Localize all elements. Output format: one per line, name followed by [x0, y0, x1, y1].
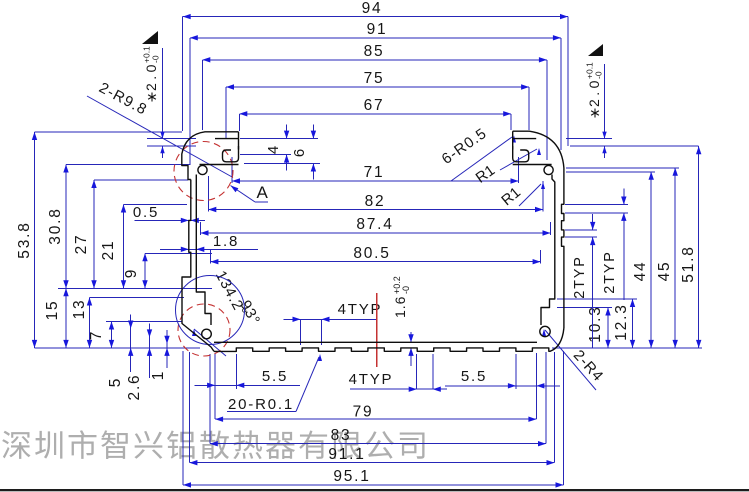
dim 1 left	[150, 330, 170, 380]
profile left boss curl	[200, 164, 239, 166]
dim 27 left	[73, 180, 188, 288]
dim 87.4 width	[201, 216, 551, 236]
label A leader	[231, 183, 270, 202]
dim 83 bottom	[210, 352, 546, 446]
section mark left *2.0	[142, 31, 165, 158]
svg-text:5: 5	[107, 377, 124, 387]
svg-text:53.8: 53.8	[16, 221, 33, 258]
svg-text:83: 83	[331, 427, 352, 444]
dim 5.5 bottom right	[445, 354, 560, 389]
svg-text:4TYP: 4TYP	[338, 301, 383, 318]
svg-text:0.5: 0.5	[133, 204, 159, 221]
dim 13 left	[71, 298, 184, 348]
dim 0.5 wall step	[133, 204, 205, 223]
svg-text:95.1: 95.1	[333, 468, 370, 485]
svg-text:45: 45	[656, 261, 673, 282]
watermark chinese text	[2, 430, 424, 459]
svg-text:91: 91	[367, 21, 388, 38]
label 2-R4 leader	[542, 329, 607, 390]
svg-text:-0: -0	[594, 71, 604, 79]
svg-text:67: 67	[364, 97, 385, 114]
dim 5 left	[107, 315, 133, 388]
red centerline	[376, 293, 378, 367]
label 6-R0.5 leader	[439, 125, 516, 181]
svg-text:2TYP: 2TYP	[572, 255, 588, 298]
svg-text:44: 44	[632, 261, 649, 282]
dim 4TYP floor rib	[284, 301, 383, 345]
profile left lid hook	[215, 132, 239, 150]
dim 71 inner width	[232, 157, 519, 184]
svg-text:1.8: 1.8	[213, 233, 239, 250]
dim 95.1 bottom	[183, 351, 564, 488]
dim 53.8 left height	[16, 132, 200, 348]
svg-text:13: 13	[71, 299, 88, 320]
svg-text:5.5: 5.5	[461, 368, 487, 385]
svg-text:94: 94	[362, 0, 383, 17]
profile right boss curl	[513, 164, 552, 166]
profile right lid hook	[513, 131, 537, 149]
dim 51.8 right height	[552, 146, 702, 348]
svg-text:79: 79	[353, 404, 374, 421]
profile right bottom boss	[540, 326, 550, 336]
svg-text:91.1: 91.1	[328, 446, 365, 463]
svg-text:30.8: 30.8	[47, 207, 64, 244]
ext lines 4/6	[240, 139, 320, 164]
label 2-R9.8 with leader	[87, 79, 233, 177]
svg-text:4: 4	[265, 144, 282, 154]
svg-text:27: 27	[73, 234, 90, 255]
svg-text:A: A	[256, 183, 269, 202]
svg-text:15: 15	[44, 300, 61, 321]
profile left wall	[182, 180, 214, 352]
label R1 upper	[473, 148, 541, 187]
profile interior floor	[214, 341, 537, 343]
svg-text:2TYP: 2TYP	[602, 250, 618, 293]
profile right inner wall	[541, 175, 555, 326]
red detail circle bottom-left	[178, 304, 230, 356]
svg-text:1: 1	[150, 370, 167, 380]
ext line right lid slot	[566, 138, 612, 140]
profile bottom serrated edge	[214, 328, 564, 351]
svg-text:1.6: 1.6	[392, 296, 408, 318]
dim 67 top width	[239, 97, 511, 131]
dim 30.8 left	[47, 165, 190, 289]
label 20-R0.1	[227, 354, 322, 413]
profile right wall outer	[513, 131, 564, 328]
dim 5.5 bottom left	[195, 354, 301, 389]
svg-text:9: 9	[123, 268, 140, 278]
dim 94 top width	[183, 0, 568, 146]
dim 2TYP slot 2	[565, 189, 628, 301]
svg-text:10.3: 10.3	[587, 305, 604, 342]
section mark right *2.0	[585, 44, 607, 158]
svg-text:20-R0.1: 20-R0.1	[228, 396, 294, 413]
svg-text:21: 21	[100, 240, 117, 261]
svg-text:2.6: 2.6	[126, 374, 143, 401]
svg-text:12.3: 12.3	[613, 303, 630, 340]
bottom border line	[0, 489, 749, 491]
svg-text:2.0: 2.0	[143, 61, 159, 91]
blue detail circle bottom-left	[176, 276, 245, 345]
dim 10.3 right	[557, 305, 612, 348]
svg-text:4TYP: 4TYP	[349, 371, 394, 388]
svg-text:-0: -0	[401, 286, 411, 294]
dim 91 top width	[190, 21, 561, 165]
dim 15 left	[44, 288, 69, 348]
svg-text:75: 75	[364, 70, 385, 87]
svg-text:71: 71	[364, 164, 385, 181]
svg-text:-0: -0	[151, 55, 161, 63]
dim 1.8 wall	[160, 233, 258, 252]
dim 82 width	[208, 176, 543, 212]
dim 4 flange	[265, 125, 289, 171]
svg-text:85: 85	[364, 43, 385, 60]
svg-text:2.0: 2.0	[586, 77, 602, 107]
svg-text:5.5: 5.5	[262, 368, 288, 385]
dim 2TYP slot 1	[565, 214, 597, 348]
dim 75 top width	[226, 70, 529, 139]
dim 21 left	[100, 205, 187, 289]
dim 6 flange	[291, 125, 316, 180]
label R1 lower	[498, 182, 545, 209]
dim 2.6 left	[126, 323, 152, 400]
dim 80.5 width	[210, 245, 540, 264]
red detail circle top-left	[174, 142, 233, 201]
svg-text:82: 82	[365, 193, 386, 210]
leader bottom-left corner	[192, 329, 226, 356]
dim 9 left	[58, 253, 212, 288]
dim 1.6 floor	[392, 276, 414, 366]
svg-text:80.5: 80.5	[353, 245, 390, 262]
dim 79 bottom	[215, 353, 536, 422]
ext lines left lid slot	[147, 139, 196, 147]
dim 85 top width	[202, 43, 547, 160]
svg-text:7: 7	[88, 330, 105, 340]
dim 7 left	[88, 322, 182, 348]
profile left inner wall	[196, 175, 211, 326]
dim 12.3 right	[557, 299, 637, 348]
svg-text:6: 6	[291, 147, 308, 157]
profile left bottom boss	[202, 329, 212, 339]
dim 4TYP bottom groove	[349, 354, 447, 392]
profile top-left corner	[182, 132, 239, 180]
svg-text:87.4: 87.4	[356, 216, 393, 233]
dim 91.1 bottom	[189, 352, 554, 465]
svg-text:51.8: 51.8	[680, 245, 697, 282]
dim 44 right	[566, 172, 655, 348]
dim 45 right	[566, 168, 679, 348]
